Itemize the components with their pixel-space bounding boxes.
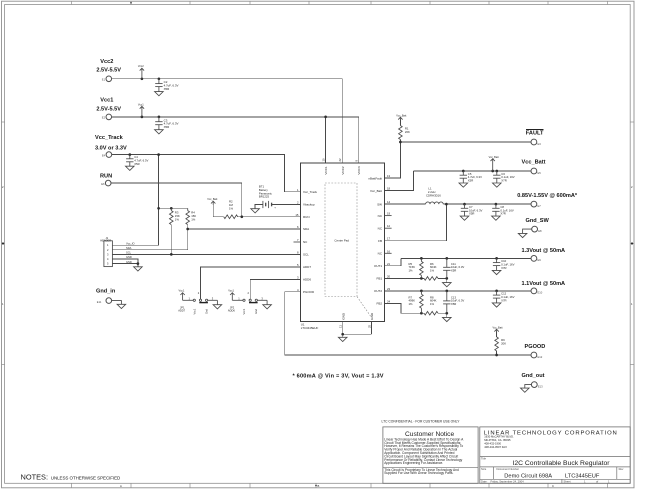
svg-text:E9: E9: [538, 258, 542, 262]
ground at IC GND pins: [338, 337, 347, 341]
svg-text:20K: 20K: [501, 341, 506, 345]
node IC gnd: [341, 333, 344, 336]
svg-text:SCL: SCL: [126, 251, 132, 255]
svg-text:2.5V-5.5V: 2.5V-5.5V: [96, 68, 121, 74]
wire SW node to FB pin 17: [385, 204, 447, 241]
svg-text:OUT1: OUT1: [374, 264, 382, 268]
node SDA-R4: [186, 228, 189, 231]
wire IC GND pin 25 stub: [371, 322, 373, 335]
svg-text:Vbackup: Vbackup: [303, 203, 315, 207]
capacitor C4 4.7uF 6.3V X5R: [126, 155, 149, 171]
svg-text:11: 11: [339, 325, 343, 328]
wire Vcc_Batt pin 18 riser: [385, 171, 414, 191]
wire header pin 2 SDA riser: [112, 229, 187, 250]
terminal E10: [531, 288, 543, 295]
wire R9 bottom to PGOOD row: [496, 351, 498, 355]
svg-text:X5R: X5R: [164, 87, 170, 91]
svg-text:nBattFault: nBattFault: [368, 176, 382, 180]
svg-text:Vcc1: Vcc1: [138, 102, 144, 106]
svg-text:HEADER: HEADER: [100, 239, 111, 243]
svg-text:A: A: [120, 484, 122, 488]
svg-text:GND: GND: [126, 260, 132, 264]
node FAULT label: [526, 129, 544, 136]
svg-text:VCC1: VCC1: [324, 166, 328, 175]
wire R1 top to Vcc_Batt flag: [399, 120, 401, 126]
svg-text:SCL: SCL: [303, 253, 309, 257]
svg-text:13: 13: [387, 174, 391, 178]
wire FB1 ground stem: [446, 278, 448, 282]
svg-text:FB: FB: [378, 239, 382, 243]
svg-text:E1: E1: [102, 78, 106, 82]
jumper JP2 ADD6: [228, 289, 272, 315]
node Vcc_Track-C4: [128, 153, 131, 156]
resistor R4 15K 1%: [186, 208, 196, 224]
svg-text:Vcc_Batt: Vcc_Batt: [396, 114, 406, 117]
node FB2: [420, 312, 423, 315]
wire Vcc_Track down to pull-up rail and header pin 1: [112, 155, 158, 246]
ground at Gnd_out: [521, 385, 532, 393]
svg-text:1%: 1%: [409, 302, 414, 306]
svg-text:FB2: FB2: [376, 302, 382, 306]
power flag Vcc2: [138, 64, 144, 79]
jumper JP1 ADD7: [178, 289, 222, 315]
capacitor C10 0.1uF 16V X7R: [492, 258, 514, 274]
node Gnd_SW label: [526, 218, 550, 224]
wire FB2 pin 24 riser: [385, 303, 424, 313]
svg-text:1%: 1%: [175, 217, 180, 221]
terminal E1: [102, 76, 112, 82]
title block box: [480, 427, 630, 483]
wire R1 bottom: [399, 140, 401, 143]
power flag Vcc_Batt at C5: [489, 156, 499, 171]
wire ADD6 pin 3 to JP2: [250, 280, 300, 300]
wire PGOOD pin 4 to E12: [285, 292, 532, 355]
capacitor C7 10uF 6.3V X5R: [460, 204, 482, 220]
svg-text:SDA: SDA: [303, 227, 309, 231]
node PGOOD label: [525, 344, 546, 350]
capacitor C11 10uF 6.3V X5R: [443, 258, 464, 278]
resistor R6 604K 1%: [424, 262, 438, 280]
node Vcc2 label: [96, 59, 121, 74]
svg-text:E13: E13: [538, 384, 543, 388]
svg-text:E10: E10: [538, 291, 543, 295]
svg-text:ADD7: ADD7: [303, 265, 311, 269]
terminal E12: [531, 352, 543, 359]
svg-text:Vcc2: Vcc2: [138, 64, 144, 68]
svg-text:12: 12: [387, 224, 391, 228]
U1 left pin names: [303, 190, 318, 294]
svg-text:X5R: X5R: [134, 162, 139, 166]
U1 NC pin stubs right and left: [294, 216, 392, 254]
U1 reference label: [301, 322, 319, 330]
svg-text:BR1225: BR1225: [259, 195, 270, 199]
wire R3 bottom to SCL row: [170, 225, 172, 255]
svg-text:E12: E12: [538, 355, 543, 359]
svg-text:X7R: X7R: [500, 212, 505, 216]
svg-text:Vcc1: Vcc1: [242, 308, 246, 314]
svg-text:10: 10: [321, 158, 325, 162]
svg-text:3.0V or 3.3V: 3.0V or 3.3V: [95, 146, 127, 152]
svg-text:MILPITAS, CA. 95035: MILPITAS, CA. 95035: [484, 438, 511, 442]
terminal E3: [531, 139, 541, 146]
svg-text:E2: E2: [102, 116, 106, 120]
wire FB1 pin 20 row: [385, 277, 424, 279]
svg-text:Gnd: Gnd: [205, 309, 209, 314]
svg-text:20: 20: [387, 274, 391, 278]
wire SW pin 14 to L1: [385, 203, 426, 205]
svg-text:C: C: [552, 484, 554, 488]
svg-text:X7R: X7R: [501, 299, 506, 303]
svg-text:Gnd_in: Gnd_in: [96, 289, 116, 295]
node OUT2 rail: [420, 290, 423, 293]
wire OUT1 pin 21 riser: [385, 258, 401, 265]
svg-text:Gnd: Gnd: [254, 309, 258, 314]
power flag Vcc1: [138, 102, 144, 117]
svg-text:Center Pad: Center Pad: [334, 239, 349, 243]
capacitor C8 0.1uF 16V X7R: [492, 204, 514, 220]
svg-text:NOTES:: NOTES:: [21, 472, 49, 481]
svg-text:Vcc_Track: Vcc_Track: [95, 135, 124, 141]
node Vcc1 pin10: [324, 116, 327, 119]
ground at Gnd_in: [112, 301, 126, 309]
svg-text:E3: E3: [538, 142, 542, 146]
wire Vcc2 net E1 to pin 22: [111, 79, 342, 163]
svg-text:E8: E8: [538, 229, 542, 233]
svg-text:408-434-0507 FAX: 408-434-0507 FAX: [484, 445, 507, 449]
node PGOOD-R9: [495, 354, 498, 357]
battery BT1 Panasonic BR1225: [259, 185, 276, 210]
wire Vcc1 branch to pin 10: [325, 117, 327, 163]
resistor R2 1M 1%: [224, 200, 238, 219]
svg-text:LTC3445EUF: LTC3445EUF: [565, 474, 600, 480]
node RUN label: [100, 174, 112, 180]
wire R2 right to RUN node: [238, 216, 242, 218]
node SW-FB: [445, 203, 448, 206]
U1 right pin numbers and stubs: [387, 174, 391, 303]
ground at FB2: [443, 317, 452, 321]
svg-text:Vcc_Batt: Vcc_Batt: [370, 189, 382, 193]
svg-text:ADD6: ADD6: [228, 309, 235, 313]
wire R4 bottom to SDA row: [187, 225, 189, 229]
wire SDA row to pin 6: [188, 228, 301, 230]
power flag Vcc_Batt at R1: [396, 114, 406, 125]
svg-text:ADD6: ADD6: [303, 278, 311, 282]
node FAULT-R1: [399, 141, 402, 144]
capacitor C12 0.1uF 16V X7R: [492, 291, 514, 307]
resistor R3 15K 1%: [170, 208, 180, 224]
wire header pin 5 GND: [112, 263, 137, 265]
wire ADD7 pin 5 to JP1: [201, 267, 301, 299]
wire Vcc_Track net E4 to pin 1: [112, 155, 301, 192]
ground at Gnd_SW: [518, 229, 532, 237]
ground at BT1: [251, 209, 260, 213]
wire battery to Vbackup pin 2: [272, 204, 301, 206]
svg-text:SW: SW: [377, 202, 382, 206]
svg-text:I2C Controllable Buck Regulato: I2C Controllable Buck Regulator: [512, 460, 610, 467]
U1 bottom pin numbers 11 25: [339, 324, 372, 328]
terminal E2: [102, 114, 112, 120]
svg-text:Size: Size: [481, 467, 487, 471]
resistor R8 604K 1%: [424, 295, 438, 315]
op-amp U1 LTC3445EUF body: [301, 163, 385, 322]
svg-text:1%: 1%: [430, 269, 435, 273]
svg-text:Document Number: Document Number: [497, 467, 520, 471]
svg-text:X5R: X5R: [468, 179, 473, 183]
wire R6 to C11 bottom: [438, 277, 447, 279]
power flag Vcc_Batt at R2: [207, 198, 217, 205]
node SCL-R3: [170, 253, 173, 256]
U1 Center Pad text: [334, 239, 349, 243]
svg-text:X7R: X7R: [501, 179, 506, 183]
svg-text:Vcc_Batt: Vcc_Batt: [493, 326, 503, 329]
svg-text:1.1Vout @ 50mA: 1.1Vout @ 50mA: [522, 281, 566, 287]
svg-text:16: 16: [387, 249, 391, 253]
wire RUN net E6 to pin 15: [111, 183, 301, 217]
capacitor C13 10uF 6.3V X5R: [443, 291, 464, 313]
power flag Vcc_Batt at R9: [493, 326, 503, 337]
svg-text:RUN: RUN: [303, 215, 310, 219]
svg-text:X5R: X5R: [164, 125, 170, 129]
terminal E6: [101, 180, 111, 186]
wire Vcc1 net E2 to pin 9: [111, 117, 359, 163]
svg-text:19: 19: [387, 212, 391, 216]
svg-text:E4: E4: [102, 153, 106, 157]
node Vcc_Track label: [95, 135, 127, 152]
U1 right pin names: [368, 176, 383, 305]
note * 600mA @ Vin = 3V, Vout = 1.3V: [293, 373, 384, 379]
svg-text:Vcc1: Vcc1: [192, 308, 196, 314]
svg-text:GND: GND: [341, 312, 345, 320]
node Vcc2-C2: [141, 77, 144, 80]
svg-text:VCC3: VCC3: [357, 166, 361, 175]
svg-text:Sheet: Sheet: [564, 480, 571, 484]
U1 top pin names VCC1 VCC2 VCC3: [324, 166, 361, 175]
svg-text:E11: E11: [97, 300, 102, 304]
node Vcc1-C3: [141, 116, 144, 119]
node FB1: [420, 277, 423, 280]
node RUN-R2: [240, 215, 243, 218]
svg-text:Title: Title: [481, 457, 486, 461]
svg-text:Vcc1: Vcc1: [228, 289, 234, 293]
svg-text:PGOOD: PGOOD: [525, 344, 546, 350]
svg-text:E7: E7: [538, 204, 542, 208]
svg-text:ADD7: ADD7: [178, 309, 185, 313]
wire SCL row header pin 3 to pin 8: [112, 253, 300, 255]
wire header pin 4 GND: [112, 259, 137, 267]
wire Vcc_Batt rail to E5: [414, 170, 532, 172]
wire R8 to C13 bottom: [438, 312, 447, 314]
terminal E9: [531, 256, 541, 263]
svg-text:0.85V-1.55V @ 600mA*: 0.85V-1.55V @ 600mA*: [517, 193, 578, 199]
svg-text:X5R: X5R: [451, 269, 456, 273]
node Vcc1 label: [96, 97, 121, 112]
svg-text:Friday, September 24, 2004: Friday, September 24, 2004: [491, 480, 525, 484]
node pull-up rail: [157, 207, 160, 210]
svg-text:X5R: X5R: [469, 212, 474, 216]
svg-text:FAULT: FAULT: [526, 131, 544, 137]
node 1.1Vout @ 50mA label: [522, 281, 566, 287]
svg-text:1%: 1%: [409, 269, 414, 273]
svg-text:Vcc2: Vcc2: [100, 59, 113, 65]
node header gnd: [137, 262, 140, 265]
node Gnd_in label: [96, 289, 116, 295]
svg-text:1.3Vout @ 50mA: 1.3Vout @ 50mA: [522, 248, 566, 254]
svg-text:Vcc_Track: Vcc_Track: [303, 190, 318, 194]
terminal E4: [102, 152, 112, 158]
svg-text:Vcc_IO: Vcc_IO: [126, 241, 135, 245]
node Vcc_Batt label: [522, 159, 546, 165]
svg-text:1%: 1%: [430, 302, 435, 306]
svg-text:FB1: FB1: [376, 277, 382, 281]
svg-text:CDRH3D16: CDRH3D16: [426, 193, 441, 197]
svg-text:B: B: [318, 484, 320, 488]
svg-text:1%: 1%: [229, 206, 234, 210]
svg-text:Date:: Date:: [481, 480, 488, 484]
resistor R7 499K 1%: [409, 291, 424, 313]
connector J1 HEADER: [100, 236, 134, 267]
svg-text:14: 14: [387, 200, 391, 204]
svg-text:VCC2: VCC2: [341, 166, 345, 175]
U1 top pin numbers 10 22 9: [321, 158, 358, 162]
resistor R9 20K: [495, 337, 506, 351]
wire OUT1 rail to E9: [401, 257, 532, 259]
svg-text:UNLESS OTHERWISE SPECIFIED: UNLESS OTHERWISE SPECIFIED: [51, 475, 121, 480]
svg-text:Gnd_SW: Gnd_SW: [526, 218, 550, 224]
capacitor C6 0.1uF 16V X7R: [493, 171, 515, 187]
node OUT1 rail: [420, 257, 423, 260]
svg-text:23: 23: [387, 287, 391, 291]
svg-text:20K: 20K: [405, 130, 410, 134]
svg-text:LTC CONFIDENTIAL - FOR CUSTO: LTC CONFIDENTIAL - FOR CUSTOMER USE ONLY: [382, 420, 461, 424]
svg-text:Vcc1: Vcc1: [100, 97, 113, 103]
svg-text:21: 21: [387, 262, 391, 266]
svg-text:E5: E5: [538, 171, 542, 175]
wire R9 top flag stem: [496, 332, 498, 337]
svg-text:Applications Engineering For A: Applications Engineering For Assistance.: [384, 461, 443, 465]
svg-text:GND: GND: [126, 255, 132, 259]
svg-text:Gnd_out: Gnd_out: [522, 373, 545, 379]
wire L1 to E7: [443, 203, 531, 205]
wire nBattFault pin 13 to R1 and E3: [385, 142, 532, 178]
wire pull-up rail R3 R4 tops: [159, 207, 188, 209]
inductor L1 2.2uH CDRH3D16: [426, 187, 444, 205]
U1 center pad dashed outline: [325, 183, 371, 317]
capacitor C3 4.7uF 6.3V X5R: [155, 117, 179, 134]
terminal E13: [531, 382, 543, 389]
capacitor C2 4.7uF 6.3V X5R: [155, 79, 179, 96]
svg-text:1630 McCARTHY BLVD.: 1630 McCARTHY BLVD.: [484, 435, 514, 439]
svg-text:15: 15: [295, 213, 299, 217]
node Gnd_out label: [522, 373, 545, 379]
ground at FB1: [443, 283, 452, 287]
svg-text:Demo Circuit 698A: Demo Circuit 698A: [504, 474, 552, 480]
U1 bottom GND pin names: [341, 312, 374, 320]
svg-text:Vcc_Batt: Vcc_Batt: [489, 156, 499, 159]
wire battery negative to ground: [255, 205, 263, 209]
svg-text:* 600mA @ Vin = 3V, Vout = 1.3: * 600mA @ Vin = 3V, Vout = 1.3V: [293, 373, 384, 379]
customer notice box: [383, 427, 478, 483]
wire Vcc_Batt flag at C5: [492, 161, 494, 171]
svg-text:GND: GND: [370, 312, 374, 320]
svg-text:RUN: RUN: [100, 174, 112, 180]
svg-text:PGOOD: PGOOD: [303, 290, 315, 294]
svg-text:Supplied For Use With Linear T: Supplied For Use With Linear Technology …: [384, 471, 453, 475]
wire IC GND pin 11 stub: [342, 322, 344, 335]
svg-text:SDA: SDA: [126, 246, 132, 250]
wire FB2 ground stem: [446, 313, 448, 317]
terminal E11: [97, 298, 112, 304]
ground at J1: [134, 267, 143, 271]
wire R2 left to Vcc_Batt flag: [213, 205, 224, 217]
svg-text:LTC3445EUF: LTC3445EUF: [301, 326, 319, 330]
wire GND pins join: [343, 334, 372, 337]
svg-text:17: 17: [387, 237, 391, 241]
wire OUT2 pin 23 rail to E10: [385, 290, 532, 292]
svg-text:Rev: Rev: [619, 467, 624, 471]
svg-text:of: of: [596, 480, 598, 484]
node VccBatt-C5: [462, 170, 465, 173]
terminal E7: [531, 201, 541, 208]
svg-text:E6: E6: [101, 182, 105, 186]
svg-text:1%: 1%: [191, 217, 196, 221]
node 0.85V-1.55V @ 600mA* label: [517, 193, 578, 199]
svg-text:X7R: X7R: [501, 266, 506, 270]
svg-text:2.5V-5.5V: 2.5V-5.5V: [96, 106, 121, 112]
svg-text:25: 25: [368, 324, 372, 328]
capacitor C5 4.7uF 6.3V X5R: [459, 171, 482, 187]
svg-text:24: 24: [387, 299, 391, 303]
U1 left pin numbers: [295, 188, 299, 292]
node 1.3Vout @ 50mA label: [522, 248, 566, 254]
svg-text:Vcc_Batt: Vcc_Batt: [207, 198, 217, 201]
terminal E5: [531, 168, 541, 175]
terminal E8: [532, 226, 542, 233]
resistor R5 715K 1%: [409, 258, 424, 278]
resistor R1 20K: [399, 126, 410, 140]
svg-text:18: 18: [387, 187, 391, 191]
svg-text:408-432-1900: 408-432-1900: [484, 441, 501, 445]
svg-text:22: 22: [338, 158, 342, 162]
TITLEBLOCK: [21, 420, 631, 484]
svg-text:Vcc1: Vcc1: [179, 289, 185, 293]
svg-text:X5R: X5R: [451, 302, 456, 306]
svg-text:OUT2: OUT2: [374, 289, 382, 293]
svg-text:Vcc_Batt: Vcc_Batt: [522, 159, 546, 165]
